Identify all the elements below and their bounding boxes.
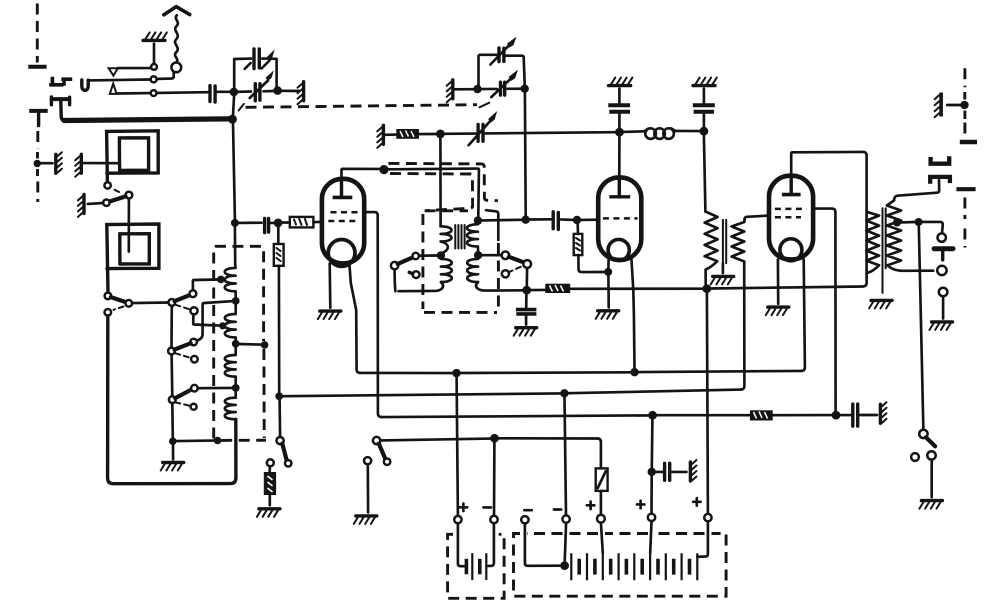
node: C1 right junction [273,86,282,95]
wire capacitor to main vertical [217,90,230,93]
contact circle to earth [927,451,935,459]
chassis bar (C1 return) [298,82,304,105]
switch arm to ground contact [109,196,125,201]
earth ground (bypass 1) [609,78,633,86]
terminal circle A- [490,516,497,523]
wiper tail [409,272,412,274]
grid leak to cathode junction [578,255,604,272]
terminal circle B- 2 [562,515,569,522]
bus wire to output corner [711,287,863,289]
earth ground (antenna switch) [143,32,167,40]
filter capacitor [853,404,858,426]
post stem to thick bus [61,101,66,121]
open throw circle [384,459,390,465]
loop antenna 2 inner turn [120,234,150,264]
wire chassis to resistor [385,133,396,136]
wire D to tap1 [193,280,218,291]
filter resistor (filled) on line C [750,410,773,420]
grid resistor (filled) [396,129,419,139]
battery B cells [571,553,697,580]
osc lower-left winding [399,259,452,291]
contact circle K [191,385,198,392]
V1 grid dashes [328,212,357,221]
node: RF line junction at x440 [436,130,445,139]
V1 cathode left lead to earth [328,264,331,308]
earth ground (T2 core) [869,300,892,308]
jack contact circle gamma [939,288,948,297]
node: bypass junction [648,468,656,476]
loop antenna 1 outer turn [107,131,159,182]
hook terminal [82,80,88,90]
ballast to earth [268,495,271,505]
ground contact circle [151,64,157,70]
chassis bar (B+ bypass) [690,460,696,481]
trimmer capacitor upper [499,48,504,62]
variable arrow [250,81,268,99]
contact circle D [190,290,197,297]
V2 plate [618,179,621,196]
main tuning capacitor (osc) [501,82,505,95]
panel boundary dash-dot upper-left [36,4,39,63]
variable arrow [469,121,491,145]
contact circle I [191,356,198,363]
node: trimmer right junction [521,85,529,93]
contact circle L [191,404,197,410]
switch arm [926,437,935,446]
terminal circle B+ first [597,515,605,523]
contact circle to ballast [267,459,274,466]
osc lower-right winding [467,259,523,291]
A-switch pole circle [373,437,380,444]
switch arm to contact V1c [398,258,413,264]
oscillator variable capacitor [478,125,483,142]
loop antenna 1 inner turn [119,138,148,171]
node: T1 primary bottom junction [702,284,711,293]
variable arrow [491,79,510,97]
node: line C x836 junction [832,411,841,420]
bus wire to T1 junction [570,287,703,290]
wire F to tap2 [193,314,219,325]
minus label 1 [524,509,532,512]
contact circle V1c [413,253,419,259]
wire osc coil to junction [482,218,522,221]
wire up to osc switch pole [393,269,396,291]
cap2 stem to earth [703,89,706,103]
coil bottom rail down and around to loop side [108,316,236,484]
jack contact circle alpha [938,233,946,241]
node: antenna bus junction [230,88,239,97]
panel boundary dash-dot mid-left [36,131,39,149]
line A (filament +) [360,372,453,375]
V2 cathode bypass: stem [525,294,528,308]
switch arm loop2 to pole B [111,297,126,302]
tube V3 envelope [769,176,813,260]
dashed throw U3-U2 [510,267,521,272]
battery A right lead [486,523,494,566]
contact circle F [190,307,197,314]
T1 core [723,220,726,263]
RF choke coil [623,130,644,133]
V3 cathode right lead down to line A corner [801,259,805,371]
trimmer arrow [245,63,251,69]
earth ground (V2 bypass) [514,328,537,336]
boundary dashes lower [963,198,966,248]
V2 grid leak resistor [576,224,579,234]
V3 cathode [780,239,802,261]
pole circle C [168,299,175,306]
wire contact to chassis bar 3 [88,202,103,206]
core stem to earth [722,263,725,273]
pole circle J [169,396,176,403]
node: grid circuit junction [231,219,239,227]
antenna terminal circle [171,63,181,73]
shield dashed pair around plate lead [388,163,498,200]
pole circle B [126,300,133,307]
wire G up over to spine junction [197,301,232,340]
thick bus wire [64,119,229,121]
terminal circle A+ [454,516,461,523]
node: line C x652 junction [648,411,657,420]
oscillator core lines [455,225,464,249]
chassis bar (trimmer return) [447,80,453,103]
switch arm U1-U3 [509,257,524,263]
node: dashed box bottom junction [214,437,222,445]
wire post to chassis bar 1 [41,162,53,165]
wire to chassis [672,471,687,474]
wire to grid junction [271,222,275,225]
terminal circle B+ 90 [704,514,711,521]
battery B tap lead +45 [650,521,651,553]
node: battery B minus junction [560,561,569,570]
wire B to C [132,301,168,304]
gamma wire to earth [942,296,945,318]
node: line D x494 junction [490,434,499,443]
earth ground (battery switch) [919,501,942,509]
wires through cap [481,87,521,90]
wire junction to coupling cap [530,218,552,221]
corner down to rheostat [597,439,601,469]
earth ground (V1 cathode) [318,311,341,319]
oscillator shield box dashed [425,209,468,212]
wire resistor to tube V1 grid [313,220,321,223]
contact circle E [105,309,112,316]
wire H down to J [170,354,173,396]
plate line corner down x866 [863,152,867,287]
row1 wire with triangle lug [118,67,151,70]
chassis bar 3 [78,194,84,217]
plus label A [460,504,468,512]
boundary T-bar 2 [956,187,975,191]
bus resistor (filled) [545,284,570,293]
wire junction to chassis bar [947,104,961,107]
box right edge solid top [486,210,498,240]
ground stem [172,445,175,460]
earth ground (switch common) [161,463,184,471]
RF line to first bypass junction [485,132,616,133]
wire chassis to junction [455,88,474,91]
line B (grid return) [283,393,561,396]
ballast resistor (filled) [268,466,271,472]
jack contact circle beta [937,266,946,275]
plate line to oscillator [388,167,476,170]
node: coil spine junction 3 (tap3) [232,384,240,392]
panel post Pi [50,97,71,101]
vertical x707 to battery B [707,293,708,514]
node: switch common ground junction [169,437,177,445]
battery A left lead [458,523,464,566]
V2 plate lead from RF line [618,136,621,177]
battery B plus lead +90 [697,521,708,556]
wire C1 to chassis [282,89,300,92]
wiper contact circle U2 [502,270,509,277]
osc switch (right) contact U1 wire [482,254,502,257]
dashed throw loop1 [115,190,120,193]
chassis bar (filter cap) [880,402,886,423]
earth ground (jack) [930,322,953,330]
stem to earth [525,315,528,324]
antenna arrow [164,7,190,15]
V3 cathode left lead to earth [777,259,780,303]
V3 plate [790,177,793,194]
main tuning capacitor C1 [255,84,260,101]
boundary dashes [963,92,966,135]
phones feed wire down to battery switch [919,226,924,431]
vertical x456 to battery A [457,377,458,516]
bypass capacitor (B+) [665,463,670,480]
contact stem to earth [930,460,933,498]
switch contact circle row3 [151,90,157,96]
V2 cathode right lead down to line A [631,259,634,369]
node: V2 grid junction [573,216,581,224]
main vertical wire x234 [233,60,235,220]
earth ground (V2 cathode) [596,311,619,319]
node: panel ground post junction [34,160,41,167]
boundary dash-dot upper [963,68,966,87]
trimmer arrow upper [490,46,508,65]
terminal circle B- 1 [521,516,528,523]
wiper contact circle V2c [413,271,420,278]
headphone jack upper cup [931,156,950,163]
terminal circle B+ 45 [648,514,655,521]
earth ground (bypass 2) [693,78,717,86]
switch contact circle row2 [151,76,157,82]
wire chassis to loop1 inner [83,162,119,165]
pole wire down to bus [525,268,528,286]
switch arm H-G [174,343,190,349]
tube V2 envelope [598,177,641,260]
panel T post lower [29,109,48,113]
plus label [587,502,595,510]
node: grid line junction x526 [522,216,530,224]
wire to jack contact [922,222,943,234]
T1 secondary winding [732,220,745,268]
T1 secondary top to V3 grid [745,216,769,220]
antenna series capacitor [210,86,215,102]
node: dot on shield edge [261,341,269,349]
coil bank dashed shield box [214,246,264,438]
V2 grid dashes [603,217,638,220]
wire junction to C1 [238,90,274,93]
chassis bar 1 [56,152,62,173]
V1 cathode right lead down [349,263,360,373]
loop antenna 2 outer turn [107,224,159,293]
parallel loop wires [479,55,525,86]
contact circle G [190,339,197,346]
tap wire to phones [901,221,915,224]
pole circle U3 [523,260,531,268]
battery A cells [465,559,469,575]
open throw circle [285,460,291,466]
wire junction to variable capacitor [444,132,476,135]
node: coil tap 2 [219,322,226,329]
node: T2 secondary tap [893,219,901,227]
contact circle to earth [364,457,371,464]
switch arm J-K [175,390,191,399]
node: osc grid coil top junction [474,216,482,224]
bypass wire to cap [656,471,663,474]
vertical x652 with RF bypass [650,419,653,468]
V3 grid dashes [775,209,807,217]
plus label 45 [637,501,645,509]
battery B minus lead 1 [525,524,561,566]
node: line A x456 junction [452,369,460,377]
loop selector pole [125,192,132,199]
jack stem to T2 secondary [894,180,939,201]
node: line A junction x634 [630,368,638,376]
node: thick bus end junction [228,115,237,124]
V1 plate [340,180,343,197]
A-switch arm [379,444,385,459]
node: phones branch junction [915,218,923,226]
node: line B x564 junction [560,389,568,397]
antenna lead-in wavy wire [175,15,178,62]
ground stem [153,44,156,64]
wire junction down to filament switch [278,400,281,437]
switch arm P [282,444,286,461]
T1 primary winding [705,212,718,286]
wire cap to grid junction [561,218,573,221]
ganged-tuning dashed link [239,104,244,111]
bypass capacitor 2 [703,114,706,128]
battery A dashed box [448,534,505,598]
cap1 stem to earth [618,89,621,103]
earth ground (ballast) [257,509,280,517]
chassis bar (right boundary) [935,93,942,118]
wire junction to grid capacitor [239,221,262,224]
wire junction to tube V2 [581,218,598,221]
node: bypass cap 2 junction [700,127,709,136]
parallel loop wire [234,59,276,87]
wire resistor to junction [419,133,437,136]
trimmer capacitor C1a [254,49,259,69]
node: trimmer left junction [473,85,481,93]
bypass capacitor 1 [618,114,621,128]
T1 primary top lead [704,135,706,211]
boundary T-bar 1 [960,140,977,145]
V3 grid line from tube right to line C corner [813,209,835,412]
vertical x564 to battery B [565,397,567,515]
node: coil spine junction 2 [232,340,240,348]
line C (B+ detector) [382,415,649,417]
battery B tap lead +22 [601,523,603,554]
wire to grid resistor [282,221,289,224]
row2 wire from hook [88,78,150,82]
node: coil tap 1 [217,276,225,284]
plate wire corner down to osc junction [478,169,479,217]
node: line B left junction [275,392,283,400]
plug tip symbol [934,246,953,251]
dashed throw J-L [175,402,189,406]
row2 wire to antenna circle [157,72,174,79]
loop2 output contact [105,293,112,300]
T1 secondary bottom down to line B corner [741,268,745,390]
ground contact circle [103,200,109,206]
bypass capacitor (V2 cathode) [516,310,537,314]
wire K to tap3 [198,387,233,390]
filament rheostat [596,468,608,491]
dashed throw C-F [176,305,190,310]
oscillator grid coil [467,224,478,251]
dashed throw to E [114,307,124,310]
contact stem [366,464,369,512]
wire R1 down to line B junction [278,266,281,393]
wire spine junction 2 to shield dot [239,343,261,346]
loop1 switch contact [104,182,110,188]
node: coil spine junction 1 [232,297,240,305]
tube V1 anode side line to line C [364,212,381,417]
battery B dashed box [514,534,727,597]
coupling capacitor C3 [553,212,558,230]
wire J down to ground junction [171,403,174,438]
node: osc lower-right coil top junction [474,251,482,259]
dashed throw H-I [175,353,190,357]
grid leak resistor R1 [277,227,280,244]
wire cap to chassis [860,414,877,417]
antenna coil section 3 [225,347,236,384]
earth ground (V3 cathode) [766,307,789,315]
plus label 90 [693,498,701,506]
earth ground (A switch) [354,516,377,524]
node: boundary junction [960,101,968,109]
row3 wire to coupling capacitor [117,92,208,93]
panel T-bar post [28,65,46,69]
T2 secondary winding [887,201,933,271]
node: V2 cathode junction [604,268,612,276]
V1 cathode [328,240,355,267]
V3 plate lead up and right [791,152,863,176]
filament switch pole P [277,437,284,444]
vertical wire x440 down to tickler [439,138,442,226]
node: tickler bottom junction [437,251,445,259]
minus label A [483,506,491,509]
node: bus junction below pole [522,286,531,295]
node: grid leak junction [274,219,283,228]
rheostat to terminal [600,491,603,515]
grid capacitor C2 [265,219,269,233]
chassis bar 2 [75,154,81,177]
wire contact into coil junction [419,254,437,257]
contact circle U1 [502,252,510,260]
V1 plate lead to top line [342,169,380,179]
panel bracket pair [51,79,70,85]
battery B minus lead 2 [565,523,566,562]
T2 core [883,208,886,293]
pole wire down into loop2 [127,199,130,252]
V2 cathode [608,239,629,260]
vertical from trimmer junction to grid line [524,93,527,216]
wire bus left of resistor [531,289,545,292]
antenna coil section 2 [225,305,236,341]
